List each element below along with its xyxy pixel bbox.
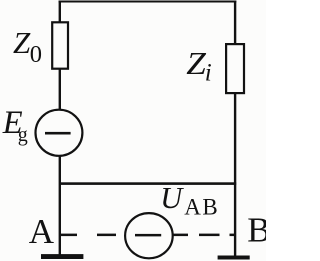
wire middle horizontal	[59, 182, 236, 185]
wire left vertical: top corner to Z0	[59, 1, 61, 23]
dashed link: dash 2	[97, 234, 116, 237]
dashed link: dash 5 stub at B	[230, 234, 235, 237]
svg-text:AB: AB	[184, 195, 219, 220]
wire Zi to terminal B	[234, 93, 236, 257]
wire top horizontal	[59, 1, 237, 3]
svg-text:U: U	[160, 181, 184, 215]
svg-text:0: 0	[30, 41, 42, 68]
source Eg	[36, 110, 83, 156]
label A	[29, 212, 55, 251]
svg-text:A: A	[29, 212, 55, 251]
label Z0	[13, 25, 42, 68]
label B	[247, 211, 270, 250]
wire right vertical: top corner to Zi	[234, 1, 236, 44]
dashed link: dash 4	[199, 234, 220, 237]
label Eg	[2, 105, 28, 146]
label UAB	[160, 181, 219, 220]
svg-text:Z: Z	[13, 25, 31, 60]
dashed link A to B: dash 1	[61, 234, 77, 237]
terminal A bar	[41, 254, 83, 259]
svg-text:i: i	[205, 60, 212, 87]
resistor Z0	[52, 22, 68, 68]
terminal B bar	[218, 256, 250, 260]
svg-text:g: g	[18, 124, 28, 146]
dashed link: dash 3	[174, 234, 189, 237]
voltmeter UAB	[125, 213, 173, 258]
svg-text:B: B	[247, 211, 266, 250]
Eg minus bar	[45, 132, 71, 135]
svg-text:Z: Z	[186, 47, 206, 82]
resistor Zi	[226, 44, 244, 93]
wire source Eg to terminal A	[59, 156, 61, 255]
UAB minus bar	[135, 234, 161, 237]
wire Z0 to source Eg	[59, 69, 61, 110]
label Zi	[186, 47, 212, 87]
